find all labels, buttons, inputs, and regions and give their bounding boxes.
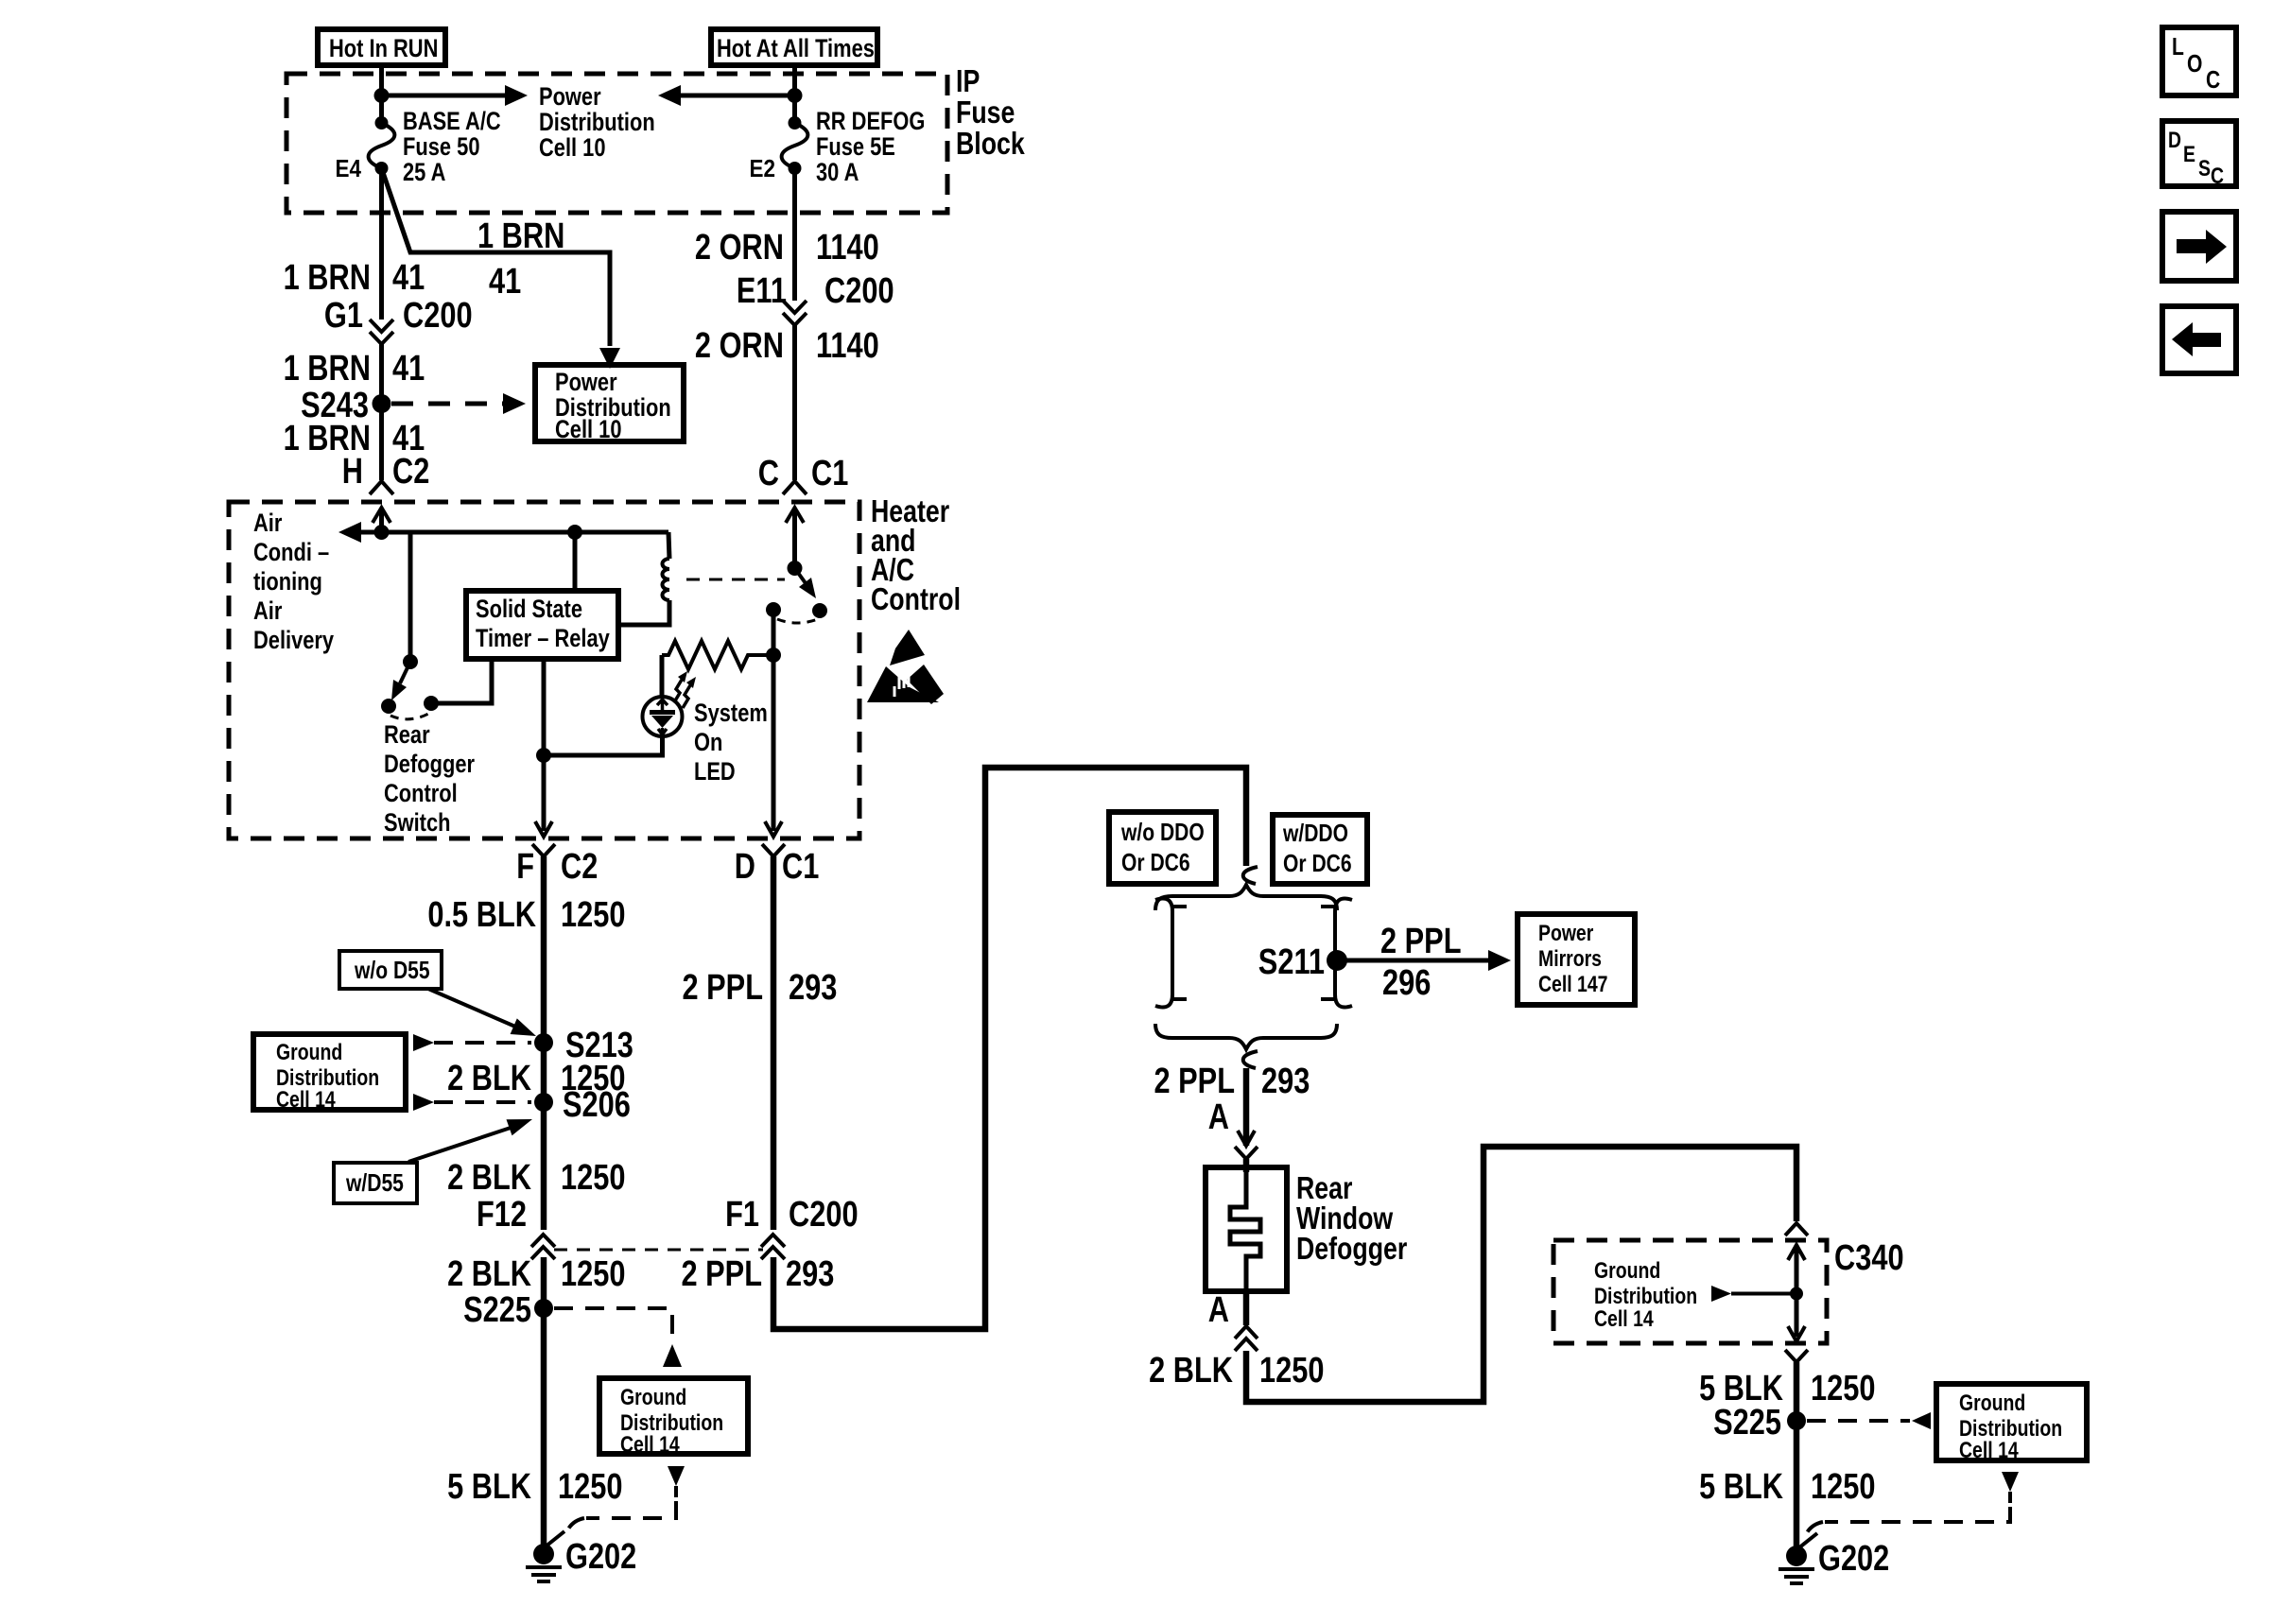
svg-text:296: 296	[1382, 963, 1431, 1003]
ground G202 (right)	[1778, 1533, 1889, 1583]
svg-text:D: D	[2168, 128, 2181, 153]
svg-text:30 A: 30 A	[816, 158, 859, 186]
legend icon arrow right	[2162, 212, 2236, 281]
connector C200 pin F12 (up chevrons)	[477, 1195, 555, 1259]
svg-text:Cell 10: Cell 10	[539, 133, 606, 162]
rear window defogger grid element	[1206, 1167, 1287, 1291]
label 5 BLK 1250 (left)	[447, 1467, 622, 1507]
svg-text:Condi –: Condi –	[253, 538, 329, 566]
ground distribution reference box (left)	[253, 1034, 406, 1113]
svg-text:Air: Air	[253, 596, 283, 625]
svg-text:Cell 14: Cell 14	[1959, 1438, 2019, 1463]
splice S243	[373, 394, 391, 413]
svg-text:G202: G202	[565, 1537, 636, 1577]
svg-text:Switch: Switch	[384, 808, 451, 837]
svg-text:41: 41	[489, 262, 521, 302]
connector C340 chevron above	[1785, 1223, 1808, 1235]
svg-text:F1: F1	[725, 1195, 759, 1235]
LED light emission arrows	[674, 671, 696, 708]
wire 2 BLK 1250 (F12 to S225 to G202)	[541, 1257, 547, 1545]
svg-text:w/o DDO: w/o DDO	[1120, 818, 1205, 846]
svg-text:1250: 1250	[561, 1254, 626, 1294]
wire arrow to Power Distribution Cell 10 (top)	[382, 85, 529, 106]
wire relay top pin to bus	[573, 532, 578, 591]
wire 2 PPL 293 (D down to F1)	[771, 856, 777, 1230]
svg-text:Air: Air	[253, 509, 283, 537]
svg-text:C1: C1	[811, 454, 848, 493]
relay coil K1	[618, 532, 669, 625]
fuse 50 BASE A/C 25A	[369, 116, 395, 175]
svg-text:C: C	[2206, 65, 2220, 94]
svg-text:1250: 1250	[561, 1158, 626, 1198]
label 2 ORN 1140 (row 1)	[695, 228, 879, 268]
svg-text:E11: E11	[737, 271, 787, 311]
power source label "Hot At All Times"	[711, 29, 877, 65]
splice S225 (right)	[1787, 1411, 1806, 1430]
svg-text:Control: Control	[871, 581, 961, 616]
wire entry arrow at H (into heater box)	[373, 508, 390, 532]
pin labels F C2 / D C1	[516, 847, 819, 887]
svg-text:2 BLK: 2 BLK	[1149, 1351, 1233, 1391]
svg-text:2 PPL: 2 PPL	[682, 1254, 763, 1294]
svg-text:Solid State: Solid State	[476, 595, 582, 623]
legend icon DESC	[2162, 121, 2236, 189]
dashed reference S225 to ground distribution (right)	[1807, 1412, 1931, 1429]
option tag w/D55 with arrow	[334, 1119, 532, 1203]
svg-text:1250: 1250	[1259, 1351, 1325, 1391]
svg-text:C340: C340	[1834, 1238, 1904, 1278]
defogger relay switch (movable contact)	[766, 561, 827, 623]
node junction at E4 feed	[374, 88, 390, 103]
svg-text:Hot In RUN: Hot In RUN	[329, 34, 438, 62]
svg-text:LED: LED	[694, 757, 736, 786]
splice S225 (left)	[534, 1299, 553, 1318]
svg-text:w/o D55: w/o D55	[354, 956, 429, 984]
svg-text:1140: 1140	[816, 228, 879, 268]
dashed reference arrow to S206	[413, 1094, 531, 1111]
wire 2 ORN 1140 (fuse 5E to E11)	[792, 168, 797, 301]
label BASE A/C Fuse 50 25 A	[403, 107, 501, 186]
internal bus wire with arrow to Air Conditioning Air Delivery	[338, 522, 668, 543]
svg-text:1250: 1250	[1811, 1369, 1876, 1408]
label Heater and A/C Control	[871, 493, 961, 616]
svg-text:BASE A/C: BASE A/C	[403, 107, 501, 135]
svg-text:1250: 1250	[561, 895, 626, 935]
label IP Fuse Block	[956, 63, 1025, 161]
connector C1 pin C (chevron above heater box)	[758, 454, 849, 494]
svg-text:On: On	[694, 728, 722, 756]
label System On LED	[694, 699, 768, 786]
svg-text:Power: Power	[539, 82, 601, 111]
svg-text:Block: Block	[956, 126, 1025, 161]
svg-text:1 BRN: 1 BRN	[477, 216, 564, 256]
dashed reference S225 to ground distribution	[554, 1308, 682, 1367]
wire resistor to LED anode	[660, 655, 665, 698]
label 1 BRN 41 (row 1)	[284, 258, 425, 298]
in-line connector squiggle (top)	[1243, 867, 1258, 884]
connector C200 pin G1 (double chevron)	[324, 296, 473, 344]
svg-text:E: E	[2183, 142, 2195, 167]
svg-text:5 BLK: 5 BLK	[447, 1467, 531, 1507]
svg-text:Cell 14: Cell 14	[276, 1087, 336, 1113]
label 2 BLK 1250 (between splices)	[447, 1059, 625, 1098]
svg-text:1250: 1250	[558, 1467, 623, 1507]
ESD sensitive device symbol	[867, 630, 944, 704]
wire LED cathode to relay output	[544, 736, 663, 755]
wire entry arrow at C (into heater box)	[786, 508, 804, 568]
dashed reference from box to G202 (right)	[1804, 1472, 2019, 1539]
svg-text:E2: E2	[750, 154, 776, 182]
label Rear Defogger Control Switch	[384, 720, 475, 837]
svg-text:S206: S206	[563, 1085, 631, 1125]
svg-text:System: System	[694, 699, 768, 727]
svg-text:G202: G202	[1818, 1539, 1889, 1579]
exit arrow at D (out of heater box)	[762, 821, 785, 856]
svg-text:1 BRN: 1 BRN	[284, 258, 371, 298]
entry arrow inside C340	[1788, 1245, 1805, 1337]
connector C200 pin E11 (double chevron)	[737, 271, 894, 325]
svg-text:tioning: tioning	[253, 567, 322, 596]
svg-text:A: A	[1208, 1097, 1229, 1137]
svg-text:RR DEFOG: RR DEFOG	[816, 107, 925, 135]
dashed reference from box to G202 wire	[565, 1466, 685, 1535]
label 0.5 BLK 1250	[427, 895, 625, 935]
connector chevron below C340	[1785, 1350, 1808, 1362]
svg-text:Cell 14: Cell 14	[1594, 1306, 1654, 1332]
dashed reference arrow to S213	[413, 1034, 531, 1051]
svg-text:Control: Control	[384, 779, 458, 807]
alternate path bracket (left)	[1155, 899, 1187, 1008]
svg-text:Or DC6: Or DC6	[1283, 849, 1352, 877]
wire 0.5 BLK 1250 (F down through splices)	[541, 856, 547, 1230]
wire switch contact to timer relay	[431, 659, 492, 703]
svg-text:C2: C2	[561, 847, 598, 887]
svg-text:2 PPL: 2 PPL	[683, 968, 764, 1008]
svg-text:Distribution: Distribution	[539, 108, 655, 136]
svg-text:41: 41	[392, 349, 425, 389]
svg-text:C200: C200	[824, 271, 894, 311]
label Power Distribution Cell 10 (top)	[539, 82, 655, 162]
svg-text:G1: G1	[324, 296, 363, 336]
svg-text:Or DC6: Or DC6	[1121, 848, 1190, 876]
wire 1 BRN 41 (G1 to S243 to H)	[379, 344, 384, 480]
svg-text:1250: 1250	[1811, 1467, 1876, 1507]
svg-text:2 PPL: 2 PPL	[1380, 922, 1462, 961]
svg-text:1 BRN: 1 BRN	[284, 349, 371, 389]
Heater and A/C Control dashed enclosure	[229, 502, 859, 838]
svg-text:1140: 1140	[816, 326, 879, 366]
alternate-wiring top brace	[1155, 885, 1337, 910]
wire 2 BLK 1250 routed right and up to C340	[1246, 1147, 1796, 1402]
exit arrow at F (out of heater box)	[532, 821, 555, 856]
svg-text:S225: S225	[1713, 1403, 1781, 1443]
connector C2 pin H (chevron above heater box)	[342, 452, 430, 494]
svg-text:Ground: Ground	[276, 1040, 342, 1065]
ground G202 (left)	[526, 1531, 636, 1581]
label 1 BRN 41 (row 3)	[284, 419, 425, 458]
legend icon LOC	[2162, 27, 2236, 95]
exit arrow inside C340	[1788, 1326, 1805, 1341]
option tag w/DDO Or DC6	[1273, 815, 1367, 884]
wire arrow to Power Distribution (left pointing)	[658, 85, 795, 106]
svg-text:w/DDO: w/DDO	[1282, 819, 1348, 847]
svg-text:D: D	[735, 847, 755, 887]
in-line connector squiggle (bottom)	[1243, 1051, 1258, 1068]
power source label "Hot In RUN"	[318, 29, 445, 65]
alternate-wiring bottom brace	[1155, 1024, 1337, 1049]
label 1 BRN 41 (row 2)	[284, 349, 425, 389]
connector arrow into defogger	[1235, 1131, 1258, 1159]
node junction LED return on output wire	[536, 748, 551, 763]
svg-text:Defogger: Defogger	[384, 750, 475, 778]
svg-text:S: S	[2198, 156, 2211, 181]
label 5 BLK 1250 (row 1 right)	[1699, 1369, 1875, 1408]
option tag w/o DDO Or DC6	[1109, 812, 1216, 884]
svg-text:293: 293	[786, 1254, 834, 1294]
svg-text:Defogger: Defogger	[1296, 1231, 1407, 1266]
wire 2 PPL 293 (to rear window defogger)	[1243, 1068, 1250, 1146]
wire 2 PPL 293 routed right and up to splice group	[773, 768, 1246, 1329]
svg-text:L: L	[2172, 32, 2184, 60]
label 2 PPL 293 (row 1)	[683, 968, 838, 1008]
Power Distribution Cell 10 reference box	[535, 365, 684, 443]
svg-text:Hot At All Times: Hot At All Times	[717, 34, 875, 62]
node junction resistor to output wire	[766, 648, 781, 663]
connector chevrons below defogger	[1235, 1326, 1258, 1351]
svg-text:293: 293	[789, 968, 837, 1008]
svg-text:Power: Power	[555, 368, 617, 396]
ground distribution reference box (right)	[1936, 1384, 2087, 1463]
wire relay output pin down to F	[542, 659, 547, 831]
rear defogger control switch (movable contact)	[381, 654, 439, 719]
System On LED D1	[643, 697, 683, 736]
dashed connector face line F12 to F1	[554, 1249, 763, 1252]
wire 2 PPL 296 arrow to Power Mirrors	[1337, 922, 1511, 1003]
svg-text:F12: F12	[477, 1195, 527, 1235]
Power Mirrors Cell 147 reference box	[1518, 914, 1635, 1005]
fuse 5E RR DEFOG 30A	[782, 116, 808, 175]
label 2 PPL 293 (row 2)	[682, 1254, 835, 1294]
dashed actuation link coil to switch	[686, 579, 785, 581]
svg-text:Cell 14: Cell 14	[620, 1432, 680, 1458]
wire 2 ORN 1140 (E11 to C)	[792, 325, 797, 480]
svg-text:IP: IP	[956, 63, 980, 98]
svg-text:C1: C1	[782, 847, 819, 887]
svg-text:Ground: Ground	[1959, 1391, 2025, 1416]
label Rear Window Defogger	[1296, 1170, 1407, 1266]
splice S213	[534, 1033, 553, 1052]
wire from Hot In RUN into fuse block	[379, 65, 384, 124]
svg-text:O: O	[2187, 49, 2202, 78]
legend icon arrow left	[2162, 306, 2236, 373]
wire out of defogger	[1243, 1291, 1250, 1325]
IP Fuse Block dashed enclosure	[286, 74, 947, 213]
svg-text:25 A: 25 A	[403, 158, 445, 186]
svg-text:Power: Power	[1538, 921, 1593, 946]
svg-text:2 BLK: 2 BLK	[447, 1158, 531, 1198]
label 2 BLK 1250 (defogger return)	[1149, 1351, 1324, 1391]
svg-text:0.5 BLK: 0.5 BLK	[427, 895, 536, 935]
splice S211	[1327, 950, 1347, 971]
svg-text:Cell 10: Cell 10	[555, 415, 622, 443]
wire 1 BRN 41 branch (diagonal + horizontal to Power Distribution)	[382, 168, 611, 346]
reference arrow joining wire inside C340	[1711, 1286, 1803, 1302]
option tag w/o D55 with arrow	[339, 951, 536, 1036]
label 2 ORN 1140 (row 2)	[695, 326, 879, 366]
dashed reference arrow S243 to Power Distribution box	[391, 393, 526, 414]
svg-text:2 BLK: 2 BLK	[447, 1254, 531, 1294]
svg-text:41: 41	[392, 258, 425, 298]
svg-text:E4: E4	[336, 154, 362, 182]
label 2 BLK 1250 (row 3)	[447, 1254, 625, 1294]
svg-text:F: F	[516, 847, 534, 887]
ground distribution reference box (lower middle)	[599, 1378, 748, 1458]
wire 5 BLK 1250 (C340 to S225 to G202)	[1794, 1362, 1800, 1546]
wire bus down to rear defogger switch	[408, 532, 413, 662]
wire from relay switch contact down to D	[772, 610, 776, 831]
svg-text:Fuse 50: Fuse 50	[403, 132, 480, 161]
svg-text:A: A	[1208, 1290, 1229, 1330]
wire from Hot At All Times into fuse block	[792, 65, 797, 124]
splice S206	[534, 1093, 553, 1112]
wire 1 BRN 41 (left vertical, fuse to G1)	[379, 168, 384, 320]
label RR DEFOG Fuse 5E 30 A	[816, 107, 925, 186]
node junction at E2 feed	[788, 88, 803, 103]
svg-text:2 ORN: 2 ORN	[695, 228, 784, 268]
node junction relay coil feed on bus	[567, 525, 582, 540]
wire into defogger	[1243, 1159, 1250, 1172]
svg-text:C200: C200	[789, 1195, 859, 1235]
svg-text:S225: S225	[463, 1290, 531, 1330]
svg-text:C: C	[2211, 164, 2224, 189]
svg-text:H: H	[342, 452, 363, 492]
label 2 BLK 1250 (row 2)	[447, 1158, 625, 1198]
svg-text:Distribution: Distribution	[1594, 1284, 1697, 1309]
svg-text:Ground: Ground	[620, 1385, 686, 1410]
node junction H feed on bus	[374, 525, 390, 540]
label Air Conditioning Air Delivery	[253, 509, 334, 654]
svg-text:5 BLK: 5 BLK	[1699, 1467, 1783, 1507]
svg-text:2 BLK: 2 BLK	[447, 1059, 531, 1098]
svg-text:Ground: Ground	[1594, 1258, 1660, 1284]
svg-text:Fuse: Fuse	[956, 95, 1015, 130]
connector C200 pin F1 (up chevrons)	[725, 1195, 859, 1259]
svg-text:C2: C2	[392, 452, 429, 492]
solid state timer-relay U1	[466, 591, 618, 659]
label 2 PPL 293 (splice output)	[1154, 1062, 1310, 1101]
arrow into Power Distribution Cell 10 box	[599, 348, 620, 369]
svg-text:C200: C200	[403, 296, 473, 336]
label 5 BLK 1250 (row 2 right)	[1699, 1467, 1875, 1507]
alternate path bracket (right)	[1321, 899, 1352, 1008]
svg-text:Rear: Rear	[384, 720, 430, 749]
svg-text:C: C	[758, 454, 779, 493]
svg-text:Mirrors: Mirrors	[1538, 946, 1602, 972]
resistor R1 (LED dropping resistor)	[662, 641, 773, 669]
svg-text:2 ORN: 2 ORN	[695, 326, 784, 366]
svg-text:Fuse 5E: Fuse 5E	[816, 132, 895, 161]
svg-text:Cell 147: Cell 147	[1538, 972, 1608, 997]
svg-text:2 PPL: 2 PPL	[1154, 1062, 1236, 1101]
svg-text:293: 293	[1261, 1062, 1310, 1101]
svg-text:Delivery: Delivery	[253, 626, 334, 654]
svg-text:Timer – Relay: Timer – Relay	[476, 624, 610, 652]
svg-text:w/D55: w/D55	[345, 1168, 404, 1197]
connector C340 dashed pass-through box with Ground Distribution Cell 14	[1553, 1240, 1827, 1343]
svg-text:S211: S211	[1258, 942, 1325, 982]
